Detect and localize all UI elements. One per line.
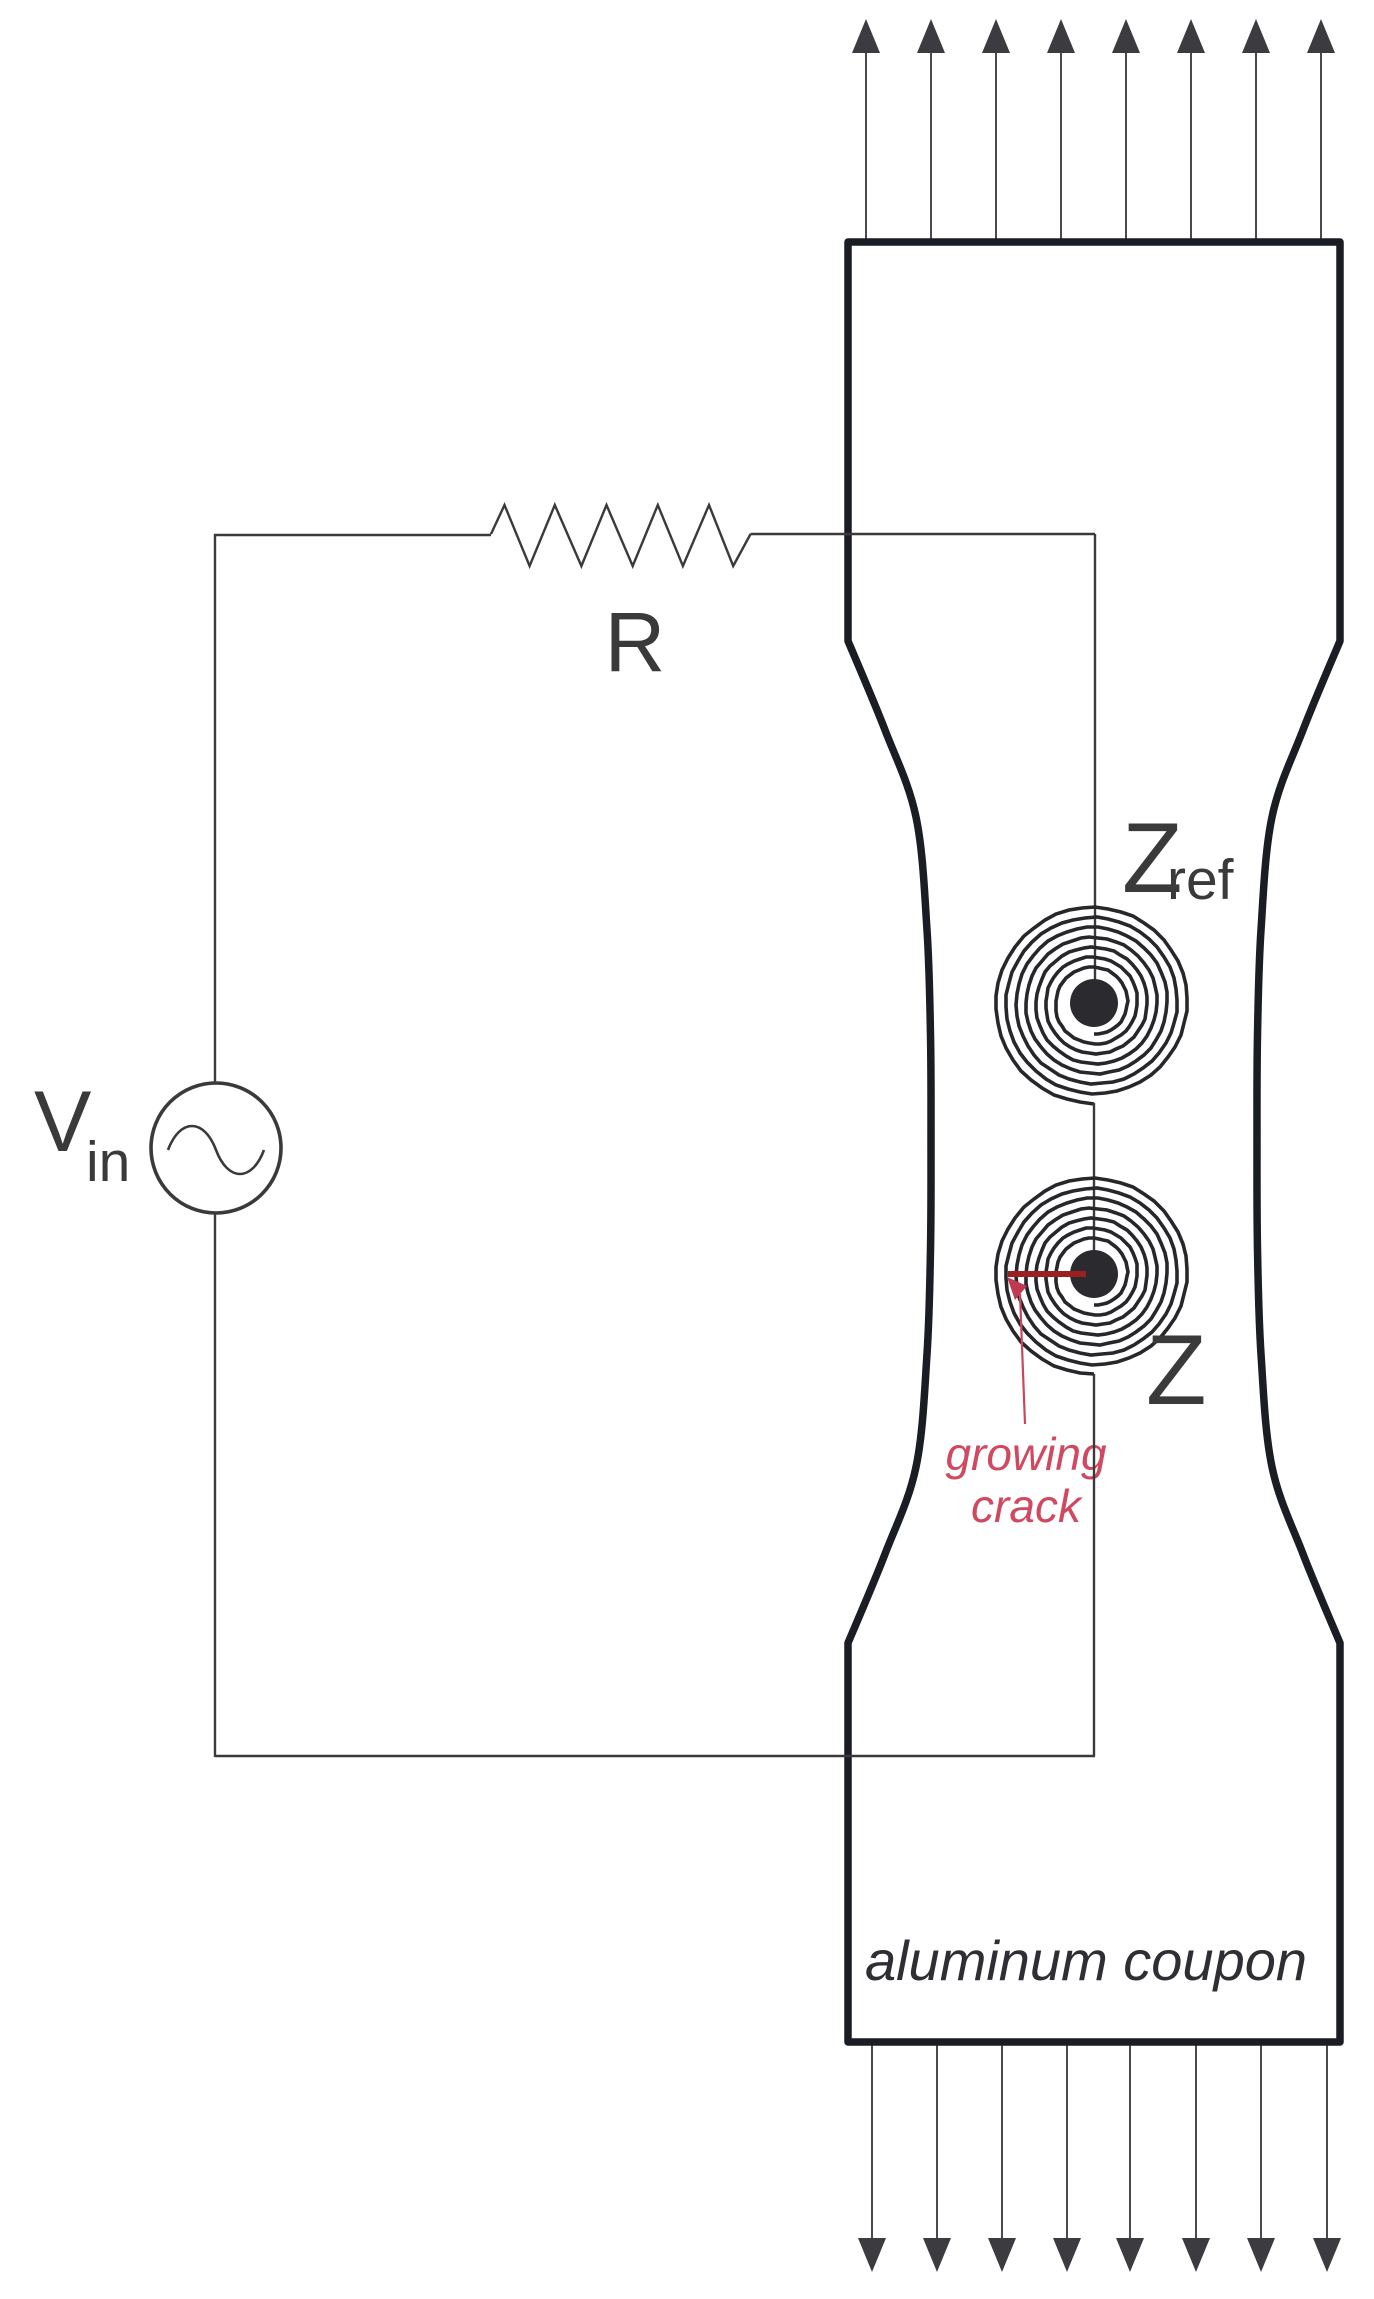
AC source Vin circle	[151, 1083, 281, 1213]
svg-text:Z: Z	[1146, 1314, 1206, 1425]
resistor R	[491, 505, 751, 566]
coil Zref spiral	[996, 907, 1187, 1104]
svg-text:R: R	[605, 595, 666, 689]
AC source sine wave	[168, 1126, 264, 1174]
tension arrow down at x=937	[923, 2042, 951, 2272]
tension arrow down at x=1327	[1313, 2042, 1341, 2272]
wire: between coils	[1093, 1103, 1095, 1274]
tension arrow up at x=866	[852, 19, 880, 242]
coil Z center dot	[1070, 1250, 1118, 1298]
tension arrow up at x=1061	[1047, 19, 1075, 242]
tension arrow up at x=996	[982, 19, 1010, 242]
aluminum coupon dog-bone outline	[848, 242, 1340, 2042]
crack leader arrowhead	[1007, 1277, 1027, 1300]
tension arrow down at x=872	[858, 2042, 886, 2272]
svg-text:crack: crack	[971, 1480, 1083, 1532]
crack leader arrow line	[1020, 1294, 1025, 1424]
wire: from coil Z down to bottom rail	[1093, 1374, 1095, 1756]
tension arrow up at x=1191	[1177, 19, 1205, 242]
tension arrow down at x=1067	[1053, 2042, 1081, 2272]
svg-text:in: in	[86, 1130, 130, 1194]
tension arrow down at x=1002	[988, 2042, 1016, 2272]
svg-text:growing: growing	[945, 1428, 1107, 1480]
svg-text:ref: ref	[1167, 848, 1234, 912]
tension arrow down at x=1130	[1116, 2042, 1144, 2272]
tension arrow up at x=1126	[1112, 19, 1140, 242]
tension arrow down at x=1261	[1247, 2042, 1275, 2272]
tension arrow up at x=1256	[1242, 19, 1270, 242]
wire: bottom rail	[215, 1755, 1095, 1757]
wire: top rail from left corner to resistor	[214, 534, 491, 536]
wire: left vertical from bottom rail up to Vin bottom	[214, 1213, 216, 1757]
svg-text:aluminum coupon: aluminum coupon	[865, 1929, 1307, 1992]
coil Z spiral	[996, 1178, 1187, 1374]
wire: left vertical from Vin top up to top rail	[214, 534, 216, 1083]
tension arrow up at x=931	[917, 19, 945, 242]
tension arrow up at x=1321	[1307, 19, 1335, 242]
wire: from resistor to top-right corner	[751, 533, 1095, 535]
svg-text:V: V	[34, 1074, 91, 1170]
wire: vertical down to Zref spiral center	[1094, 534, 1096, 1003]
growing crack line from coil Z center	[1008, 1271, 1086, 1277]
coil Zref center dot	[1070, 979, 1118, 1027]
tension arrow down at x=1196	[1182, 2042, 1210, 2272]
